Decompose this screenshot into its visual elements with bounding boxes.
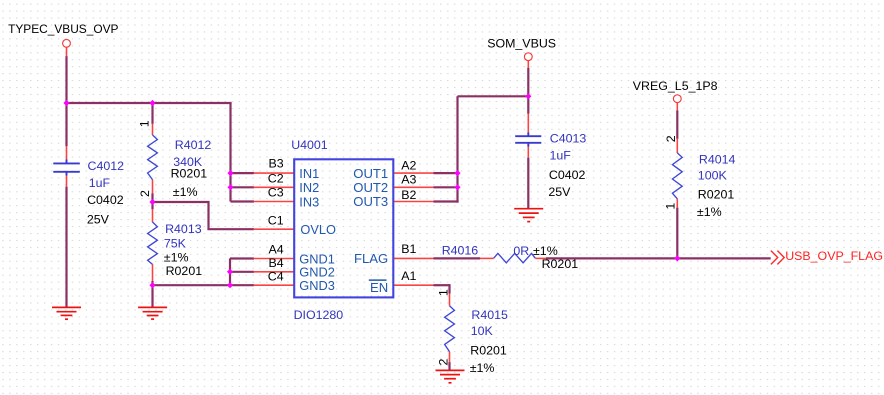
svg-text:100K: 100K bbox=[698, 169, 728, 183]
svg-text:FLAG: FLAG bbox=[354, 251, 388, 266]
svg-text:±1%: ±1% bbox=[533, 244, 558, 258]
svg-text:R0201: R0201 bbox=[470, 344, 507, 358]
svg-text:B2: B2 bbox=[401, 188, 416, 202]
svg-text:R4012: R4012 bbox=[175, 138, 212, 152]
svg-text:25V: 25V bbox=[548, 185, 571, 199]
svg-text:TYPEC_VBUS_OVP: TYPEC_VBUS_OVP bbox=[8, 22, 118, 36]
svg-text:EN: EN bbox=[370, 280, 388, 295]
svg-text:A4: A4 bbox=[268, 243, 283, 257]
svg-text:A3: A3 bbox=[401, 173, 416, 187]
svg-text:C4: C4 bbox=[268, 269, 284, 283]
svg-text:B4: B4 bbox=[268, 256, 283, 270]
svg-text:R4013: R4013 bbox=[165, 222, 202, 236]
svg-text:IN2: IN2 bbox=[299, 180, 319, 195]
svg-text:75K: 75K bbox=[164, 236, 187, 250]
svg-text:R4015: R4015 bbox=[471, 308, 508, 322]
svg-text:IN1: IN1 bbox=[299, 166, 319, 181]
svg-text:USB_OVP_FLAG: USB_OVP_FLAG bbox=[785, 249, 883, 263]
svg-text:1uF: 1uF bbox=[89, 176, 111, 190]
svg-text:340K: 340K bbox=[173, 155, 203, 169]
svg-text:OUT2: OUT2 bbox=[353, 180, 388, 195]
svg-text:±1%: ±1% bbox=[164, 251, 189, 265]
svg-text:OVLO: OVLO bbox=[300, 222, 336, 237]
svg-text:1: 1 bbox=[664, 203, 678, 210]
svg-text:OUT1: OUT1 bbox=[353, 166, 388, 181]
svg-text:C3: C3 bbox=[268, 186, 284, 200]
svg-text:R0201: R0201 bbox=[542, 257, 579, 271]
svg-text:25V: 25V bbox=[87, 213, 110, 227]
svg-text:A1: A1 bbox=[401, 269, 416, 283]
svg-text:1: 1 bbox=[138, 120, 152, 127]
svg-text:2: 2 bbox=[436, 358, 450, 365]
svg-text:0R: 0R bbox=[513, 244, 529, 258]
svg-text:U4001: U4001 bbox=[291, 138, 328, 152]
svg-text:R0201: R0201 bbox=[166, 264, 203, 278]
svg-text:C0402: C0402 bbox=[87, 193, 124, 207]
svg-text:A2: A2 bbox=[401, 158, 416, 172]
svg-text:R4016: R4016 bbox=[442, 244, 479, 258]
svg-text:B3: B3 bbox=[268, 157, 283, 171]
svg-text:±1%: ±1% bbox=[697, 205, 722, 219]
svg-text:±1%: ±1% bbox=[470, 361, 495, 375]
svg-text:OUT3: OUT3 bbox=[353, 194, 388, 209]
svg-text:2: 2 bbox=[664, 135, 678, 142]
svg-text:B1: B1 bbox=[401, 242, 416, 256]
svg-text:VREG_L5_1P8: VREG_L5_1P8 bbox=[633, 79, 718, 93]
svg-text:R4014: R4014 bbox=[699, 152, 736, 166]
svg-text:C1: C1 bbox=[268, 213, 284, 227]
svg-text:±1%: ±1% bbox=[173, 185, 198, 199]
svg-text:C4012: C4012 bbox=[88, 159, 125, 173]
svg-text:SOM_VBUS: SOM_VBUS bbox=[487, 37, 556, 51]
svg-text:C2: C2 bbox=[268, 172, 284, 186]
svg-text:R0201: R0201 bbox=[698, 188, 735, 202]
svg-text:DIO1280: DIO1280 bbox=[294, 308, 344, 322]
svg-text:GND3: GND3 bbox=[299, 278, 335, 293]
svg-text:10K: 10K bbox=[471, 324, 494, 338]
svg-text:C4013: C4013 bbox=[550, 132, 587, 146]
svg-text:IN3: IN3 bbox=[299, 194, 319, 209]
svg-text:1: 1 bbox=[437, 289, 451, 296]
svg-text:1uF: 1uF bbox=[550, 148, 572, 162]
svg-text:2: 2 bbox=[138, 190, 152, 197]
svg-text:C0402: C0402 bbox=[549, 168, 586, 182]
